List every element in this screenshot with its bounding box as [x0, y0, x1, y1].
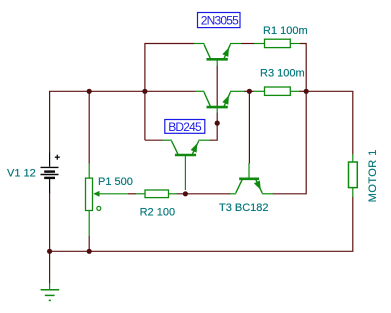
wire pot bottom down [88, 236, 90, 251]
node pot bottom on bottom rail [87, 249, 92, 254]
wire T3 base riser [248, 91, 250, 163]
wire bottom rail to motor bottom [50, 197, 353, 252]
node T3 base tap [247, 89, 252, 94]
label box 2N3055 [198, 13, 241, 28]
wire pot top riser [88, 91, 90, 163]
node output (R1/R3/motor/T3) [304, 89, 309, 94]
wire BD245 collector to left rail [145, 139, 163, 141]
node pot top on mid rail [87, 89, 92, 94]
wire Q2 emitter to R3 [244, 90, 254, 92]
wire R1 right down to output node [300, 44, 306, 92]
resistor R3 100m [253, 87, 299, 95]
svg-text:P1 500: P1 500 [98, 176, 133, 188]
svg-text:MOTOR 1: MOTOR 1 [367, 149, 379, 202]
transistor T3 BC182 [230, 163, 273, 194]
resistor R2 100 [136, 190, 177, 198]
svg-text:2N3055: 2N3055 [201, 14, 239, 28]
transistor Q1 2N3055 (top) [194, 44, 241, 67]
transistor Q2 2N3055 (second) [195, 91, 244, 113]
resistor R1 100m [254, 39, 300, 47]
wire Q2 base down to BD245 emitter [210, 113, 218, 141]
wire T3 emitter riser [273, 91, 307, 194]
wire output node to motor top [306, 91, 353, 154]
potentiometer P1 500 [86, 163, 128, 237]
svg-text:R2 100: R2 100 [140, 206, 175, 218]
motor MOTOR 1 [349, 154, 358, 197]
wire ground stem [49, 251, 51, 283]
node left rail on mid rail [142, 89, 147, 94]
wire R3 right to output node [299, 90, 306, 92]
transistor BD245 (driver) [163, 140, 210, 190]
node BD245 base on control line [183, 191, 188, 196]
wire control line R2 to T3 collector [177, 193, 231, 195]
svg-text:V1 12: V1 12 [7, 168, 36, 180]
wire mid rail (battery plus to Q2 collector) [50, 91, 196, 153]
node base junction [215, 121, 220, 126]
wire left rail vertical [144, 43, 146, 140]
battery V1 12 [41, 153, 60, 194]
node battery minus / ground [47, 249, 52, 254]
svg-text:T3 BC182: T3 BC182 [219, 202, 269, 214]
wire Q1 emitter to R1 [241, 43, 255, 45]
label box BD245 [165, 120, 205, 134]
wire top rail left (Q1 collector to left rail) [145, 43, 194, 45]
wire battery minus down [49, 193, 51, 252]
wire pot wiper to R2 [128, 193, 136, 195]
svg-text:R1 100m: R1 100m [263, 25, 308, 37]
ground [41, 283, 60, 300]
wire bases vertical Q1-Q2 [216, 66, 218, 107]
svg-text:R3 100m: R3 100m [260, 67, 305, 79]
svg-text:BD245: BD245 [168, 120, 202, 134]
